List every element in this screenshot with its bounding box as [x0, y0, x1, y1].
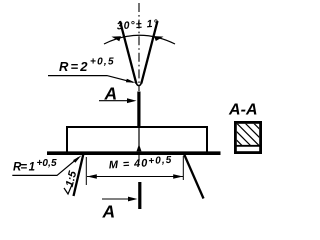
angle dimension arc [104, 35, 175, 44]
support top surface line [47, 151, 221, 155]
svg-text:+0,5: +0,5 [90, 57, 114, 68]
striker tip radius R2 [136, 82, 141, 86]
M dimension right extension line [182, 156, 184, 180]
left support inner face (slope 1:5) [74, 154, 84, 197]
section cut line A (bottom, thick) [138, 182, 141, 209]
R=1 leader line [12, 158, 78, 176]
R=2 leader line [48, 76, 133, 83]
striker left edge [120, 21, 136, 84]
section square outline [235, 122, 260, 152]
right support inner face [184, 154, 204, 199]
slope symbol [64, 184, 73, 195]
M dimension left extension line [85, 157, 87, 185]
svg-text:A - A: A - A [228, 102, 258, 119]
svg-text:+0,5: +0,5 [148, 155, 172, 167]
svg-text:A: A [102, 202, 116, 222]
striker right edge [141, 21, 157, 84]
M dimension line [87, 176, 183, 178]
section cut line A (top, thick) [137, 92, 140, 127]
M dimension arrow right [173, 174, 183, 179]
specimen rectangle [67, 127, 207, 153]
svg-text:M = 40: M = 40 [109, 157, 149, 171]
section inner divider line [236, 145, 260, 147]
section arrow (bottom) [102, 198, 132, 200]
svg-text:R= 1: R= 1 [13, 162, 35, 174]
svg-text:R = 2: R = 2 [59, 59, 88, 74]
centreline tail below support line [138, 155, 140, 160]
svg-text:+0,5: +0,5 [37, 158, 57, 169]
R=1 leader arrowhead [73, 155, 81, 162]
R=2 leader arrowhead [126, 79, 136, 83]
M dimension arrow left [87, 174, 97, 179]
angle arrow left [112, 36, 122, 41]
angle arrow right [154, 36, 164, 41]
impact direction arrow at specimen centre [138, 127, 140, 146]
centerline (vertical dash-dot axis) [138, 3, 140, 91]
section arrow (top) [99, 100, 131, 102]
